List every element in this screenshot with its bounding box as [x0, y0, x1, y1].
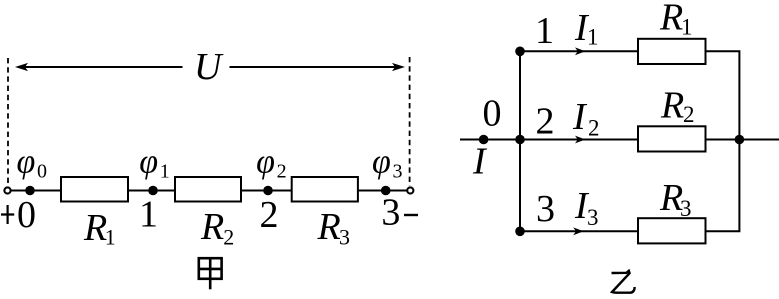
caption 甲 (drawn) [199, 257, 222, 289]
node 0 dot [25, 186, 35, 196]
svg-text:φ: φ [17, 144, 36, 181]
resistor R2 body [638, 126, 706, 151]
svg-text:0: 0 [17, 194, 36, 236]
svg-text:U: U [194, 46, 224, 88]
dashed leader left [7, 58, 9, 186]
svg-text:3: 3 [536, 188, 555, 230]
input wire [460, 139, 520, 141]
wire [358, 190, 407, 192]
arrowhead left of U line [15, 63, 28, 71]
resistor R1 body [638, 39, 706, 64]
node 2 dot [263, 186, 273, 196]
svg-text:I: I [472, 141, 488, 183]
svg-text:1: 1 [535, 10, 554, 52]
svg-text:3: 3 [587, 205, 599, 230]
U dimension line right segment [230, 66, 397, 68]
svg-text:1: 1 [139, 194, 158, 236]
svg-text:3: 3 [680, 196, 692, 221]
main wire segments [11, 190, 62, 192]
svg-text:φ: φ [139, 144, 158, 181]
svg-text:2: 2 [536, 101, 555, 143]
right bus with corner stubs [706, 51, 779, 231]
left bus [519, 51, 521, 231]
svg-text:3: 3 [393, 161, 403, 183]
plus sign at terminal [1, 205, 14, 224]
svg-text:1: 1 [160, 161, 170, 183]
node 1 dot [148, 186, 158, 196]
svg-text:2: 2 [588, 116, 600, 141]
branch 1 wire left [520, 50, 638, 52]
current arrowhead I2 [575, 136, 585, 144]
svg-text:R: R [83, 207, 107, 249]
dashed leader right [409, 57, 411, 186]
caption 乙 (drawn) [612, 271, 635, 293]
svg-text:R: R [317, 206, 341, 248]
svg-text:φ: φ [256, 144, 275, 181]
resistor R1 body [61, 177, 128, 202]
junction dot 3 [515, 227, 525, 237]
junction dot 2 [515, 135, 525, 145]
svg-text:1: 1 [681, 15, 693, 40]
wire [128, 190, 175, 192]
svg-text:0: 0 [37, 161, 47, 183]
svg-text:2: 2 [277, 161, 287, 183]
terminal (open circle) right [407, 187, 413, 193]
branch 2 wire left [520, 139, 638, 141]
branch 3 wire left [520, 230, 638, 232]
svg-text:R: R [659, 0, 683, 38]
wire [241, 190, 292, 192]
svg-text:I: I [572, 96, 588, 138]
svg-text:1: 1 [587, 25, 599, 50]
svg-text:3: 3 [381, 192, 400, 234]
junction dot 1 [515, 47, 525, 57]
resistor R3 body [638, 218, 706, 243]
terminal (open circle) left [4, 187, 10, 193]
svg-text:3: 3 [339, 225, 350, 250]
svg-text:2: 2 [223, 224, 234, 249]
resistor R3 body [292, 177, 358, 202]
svg-text:R: R [660, 84, 684, 126]
U dimension line left segment [24, 66, 183, 68]
current arrowhead I1 [575, 47, 585, 55]
svg-text:φ: φ [372, 144, 391, 181]
node dot input [479, 135, 489, 145]
junction dot right [735, 135, 745, 145]
arrowhead right of U line [392, 63, 405, 71]
svg-text:2: 2 [260, 194, 279, 236]
resistor R2 body [175, 177, 241, 202]
current arrowhead I3 [573, 227, 583, 235]
svg-text:0: 0 [483, 93, 502, 135]
minus sign at terminal [404, 214, 418, 216]
svg-text:1: 1 [105, 224, 116, 249]
svg-text:R: R [200, 206, 224, 248]
svg-text:2: 2 [683, 102, 695, 127]
node 3 dot [381, 186, 391, 196]
